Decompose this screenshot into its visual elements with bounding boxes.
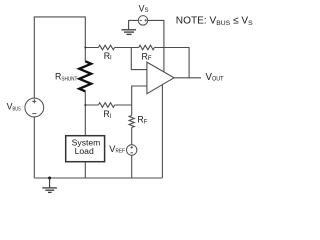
ground (main, bottom) [48,177,51,180]
node: junction at R_SHUNT bottom [84,104,86,106]
wire: op-amp output to V_OUT [174,77,201,79]
resistor RI (top) [98,45,114,50]
svg-text:VOUT: VOUT [206,72,224,83]
svg-text:VS: VS [139,3,149,14]
wire: node B down to System Load box [84,105,86,136]
node: junction at R_SHUNT top [84,47,86,49]
ground (V_S) [122,30,137,35]
svg-text:Load: Load [75,146,94,156]
svg-text:RSHUNT: RSHUNT [55,71,78,82]
wire: R_F vertical bottom lead to V_REF [131,128,133,145]
resistor RF (vertical) [129,116,134,128]
source V_S [138,16,148,26]
svg-text:VBUS: VBUS [7,102,21,113]
resistor RSHUNT (bold) [79,61,91,91]
wire: left loop (V_BUS top, top rail, down to R_I row) [34,17,85,98]
wire: inverting input branch [131,48,147,70]
wire: R_SHUNT bottom lead to node B [84,91,86,105]
wire: op-amp V- down to ground rail [161,85,163,178]
wire: R_SHUNT top lead [84,48,86,62]
wire: System Load box to ground rail [84,162,86,178]
source V_REF [127,145,137,155]
svg-text:VREF: VREF [109,144,125,155]
source V_BUS [25,98,44,117]
wire: lower row leads [85,104,131,106]
resistor RF (top) [139,45,155,50]
op-amp U1 [147,62,174,94]
resistor RI (lower) [98,103,114,108]
wire: V_REF bottom to ground rail [131,155,133,178]
svg-text:NOTE: VBUS ≤ VS: NOTE: VBUS ≤ VS [176,16,253,28]
svg-text:RF: RF [137,114,147,125]
wire: V_S left lead and ground drop [129,20,139,29]
svg-text:RI: RI [104,51,112,62]
wire: non-inverting input branch [132,86,147,105]
wire: V_S right lead down to op-amp V+ [148,20,164,72]
svg-text:RI: RI [103,109,111,120]
System Load box [66,136,105,162]
wire: R_F vertical top lead [131,105,133,116]
wire: V_BUS bottom to ground rail [33,117,35,178]
wire: ground rail [34,177,162,179]
wire: top row leads and feedback to output [85,48,189,78]
svg-text:RF: RF [142,51,152,62]
